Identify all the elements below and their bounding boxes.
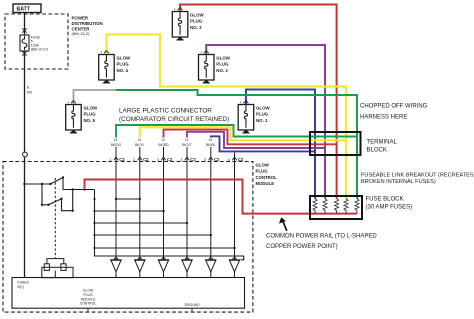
- driver transistor Q1: [110, 260, 121, 278]
- wire red glow plug 3 to fuse block: [180, 5, 337, 199]
- svg-text:GLOW: GLOW: [216, 55, 231, 60]
- fuse F5 125A: [20, 35, 29, 51]
- svg-text:BK/DG: BK/DG: [111, 143, 122, 147]
- svg-text:MODULE: MODULE: [256, 181, 275, 186]
- relay coil: [42, 259, 73, 278]
- fuse element 5: [355, 199, 359, 214]
- svg-text:FUSE BLOCK: FUSE BLOCK: [366, 197, 404, 203]
- wire red comparator pin3 to terminal block: [164, 130, 337, 145]
- stub below ground: [191, 308, 193, 311]
- svg-text:C2: C2: [143, 157, 149, 162]
- svg-text:FUSED: FUSED: [18, 281, 30, 285]
- label: FUSED B(+): [18, 281, 30, 290]
- driver transistor Q3: [158, 260, 169, 278]
- driver transistor Q4: [181, 260, 192, 278]
- svg-text:GLOW: GLOW: [256, 105, 271, 110]
- ground at glow plug 2: [203, 79, 210, 83]
- matrix row 5: [95, 247, 235, 249]
- svg-text:TERMINAL: TERMINAL: [367, 140, 398, 146]
- svg-text:C2: C2: [119, 157, 125, 162]
- node bus top: [63, 189, 95, 191]
- wire yellow comparator pin2 to terminal block: [140, 127, 346, 140]
- svg-text:CONTROL: CONTROL: [256, 175, 278, 180]
- svg-text:PLUG: PLUG: [256, 112, 269, 117]
- label: GLOW PLUG NO. 1: [256, 105, 271, 122]
- terminal block: [310, 132, 361, 155]
- label: COMMON POWER RAIL: [266, 234, 377, 250]
- svg-text:COPPER POWER POINT): COPPER POWER POINT): [266, 244, 338, 250]
- wire purple comparator pin4 to terminal block: [187, 132, 325, 148]
- svg-text:C2: C2: [167, 157, 173, 162]
- label: wire gauge 8 RD: [27, 86, 33, 95]
- driver transistor Q2: [134, 260, 145, 278]
- stub below control: [87, 308, 89, 311]
- glow plug No. 5: [66, 100, 82, 130]
- glow plug No. 2: [199, 50, 215, 80]
- power distribution center dashed box: [5, 14, 68, 69]
- svg-text:3: 3: [157, 158, 159, 162]
- bus vertical inside module: [95, 190, 244, 260]
- wire blue glow plug 1 to fuse block: [246, 90, 315, 199]
- svg-text:HARNESS HERE: HARNESS HERE: [360, 115, 407, 121]
- svg-text:POWER: POWER: [72, 15, 89, 20]
- svg-text:NO. 3: NO. 3: [190, 25, 202, 30]
- svg-text:B(+): B(+): [18, 285, 25, 289]
- svg-text:BK/RD: BK/RD: [158, 143, 169, 147]
- svg-text:GLOW: GLOW: [117, 55, 132, 60]
- wire yellow glow plug 4 to fuse block: [106, 35, 346, 199]
- svg-text:BATT: BATT: [17, 7, 31, 13]
- pin leads through connector C2 into module: [116, 147, 235, 260]
- label: GLOW PLUG NO. 3: [190, 12, 205, 29]
- svg-text:NO. 5: NO. 5: [84, 118, 96, 123]
- svg-text:GROUND: GROUND: [184, 303, 200, 307]
- fuse element 2: [323, 199, 327, 214]
- label: GLOW PLUG NO. 5: [84, 105, 99, 122]
- splice X mark below fuse: [22, 51, 26, 55]
- svg-text:1: 1: [110, 158, 112, 162]
- svg-text:PLUG: PLUG: [84, 112, 97, 117]
- matrix row 3: [95, 222, 188, 224]
- ground at glow plug 3: [176, 36, 183, 40]
- fuse element 4: [344, 199, 348, 214]
- label: GLOW PLUG MODULE CONTROL: [80, 289, 97, 306]
- glow plug No. 1: [238, 100, 254, 130]
- svg-text:PLUG: PLUG: [256, 169, 269, 174]
- matrix row 2: [95, 210, 164, 212]
- connector C2 pin chevrons and labels: [110, 157, 244, 162]
- svg-text:5: 5: [204, 158, 206, 162]
- ground at glow plug 1: [242, 129, 249, 133]
- svg-text:2: 2: [133, 158, 135, 162]
- relay actuation dashed line: [54, 178, 56, 258]
- svg-text:RD: RD: [27, 91, 33, 95]
- arrow to common power rail: [279, 217, 287, 231]
- svg-text:GLOW: GLOW: [256, 162, 270, 167]
- label: LARGE PLASTIC CONNECTOR: [119, 108, 229, 123]
- svg-text:BK/VT: BK/VT: [182, 143, 192, 147]
- svg-text:GLOW: GLOW: [83, 289, 94, 293]
- wire purple glow plug 2 to fuse block: [206, 45, 325, 199]
- svg-text:NO. 4: NO. 4: [117, 68, 129, 73]
- svg-text:(COMPARATOR CIRCUIT RETAINED): (COMPARATOR CIRCUIT RETAINED): [119, 116, 229, 123]
- fuse element 1: [313, 199, 317, 214]
- svg-text:14: 14: [185, 138, 189, 142]
- connector circle at module entry: [23, 152, 28, 157]
- svg-text:GLOW: GLOW: [190, 12, 205, 17]
- ground at glow plug 4: [103, 79, 110, 83]
- driver transistor Q5: [205, 260, 216, 278]
- relay contact blade 2: [41, 184, 43, 205]
- internal circuit box: [12, 278, 245, 309]
- wire blue comparator pin5 to terminal block: [211, 136, 315, 151]
- svg-text:PLUG: PLUG: [117, 62, 130, 67]
- svg-text:BLOCK: BLOCK: [367, 148, 387, 154]
- svg-text:4: 4: [181, 158, 183, 162]
- svg-text:BK/BL: BK/BL: [206, 143, 216, 147]
- wire feed inside module to internal box: [24, 157, 26, 278]
- svg-text:CHOPPED OFF WIRING: CHOPPED OFF WIRING: [360, 104, 428, 110]
- svg-text:BK/YL: BK/YL: [135, 143, 145, 147]
- battery B1 box BATT: [13, 4, 41, 13]
- svg-text:14: 14: [137, 138, 141, 142]
- label: FUSE 5 125A: [31, 36, 48, 52]
- ground at glow plug 5: [70, 129, 77, 133]
- svg-text:C2: C2: [238, 157, 244, 162]
- wire labels 14 BK/xx: [111, 138, 216, 147]
- svg-text:DISTRIBUTION: DISTRIBUTION: [72, 21, 103, 26]
- svg-text:NO. 2: NO. 2: [216, 68, 228, 73]
- svg-text:14: 14: [114, 138, 118, 142]
- relay branch from feed: [25, 183, 51, 185]
- svg-text:COMMON POWER RAIL (TO L-SHAPED: COMMON POWER RAIL (TO L-SHAPED: [266, 234, 377, 240]
- wire green to fuse block: [116, 90, 357, 199]
- matrix row 4: [95, 234, 212, 236]
- label: CHOPPED OFF WIRING HARNESS HERE: [360, 104, 428, 121]
- fuse element 3: [335, 199, 339, 214]
- fuse block: [310, 196, 362, 219]
- svg-text:NO. 1: NO. 1: [256, 118, 268, 123]
- svg-text:14: 14: [208, 138, 212, 142]
- relay contact blade 1: [51, 178, 64, 185]
- svg-text:C2: C2: [190, 157, 196, 162]
- svg-text:6: 6: [228, 158, 230, 162]
- wire from BATT to fuse: [24, 13, 26, 36]
- svg-text:PLUG: PLUG: [190, 19, 203, 24]
- glow plug No. 3: [172, 7, 188, 37]
- wire grey from glow plug 5: [73, 90, 116, 104]
- svg-text:(8W-10-2): (8W-10-2): [72, 31, 91, 36]
- svg-text:(30 AMP FUSES): (30 AMP FUSES): [366, 205, 413, 211]
- label: GLOW PLUG NO. 2: [216, 55, 231, 72]
- svg-text:PLUG: PLUG: [83, 293, 93, 297]
- svg-text:PLUG: PLUG: [216, 62, 229, 67]
- svg-text:LARGE PLASTIC CONNECTOR: LARGE PLASTIC CONNECTOR: [119, 108, 212, 115]
- glow plug control module dashed box: [3, 162, 253, 313]
- svg-text:14: 14: [161, 138, 165, 142]
- svg-text:CONTROL: CONTROL: [80, 302, 97, 306]
- svg-text:BROKEN INTERNAL FUSES): BROKEN INTERNAL FUSES): [361, 179, 436, 185]
- wire red common power rail from module to fuse block: [85, 180, 358, 214]
- driver transistor Q6: [229, 260, 240, 278]
- matrix row 1: [116, 198, 140, 200]
- splice X mark above fuse: [22, 28, 26, 32]
- label: GLOW PLUG NO. 4: [117, 55, 132, 72]
- svg-text:FUSEABLE LINK BREAKOUT (RECREA: FUSEABLE LINK BREAKOUT (RECREATES: [361, 172, 474, 178]
- label: FUSE BLOCK 30 AMP FUSES: [366, 197, 413, 211]
- svg-text:8: 8: [27, 86, 29, 90]
- svg-text:(8W-10-17): (8W-10-17): [31, 48, 48, 52]
- transistor input chevrons: [114, 257, 237, 261]
- svg-text:GLOW: GLOW: [84, 105, 99, 110]
- svg-text:C2: C2: [214, 157, 220, 162]
- glow plug No. 4: [99, 50, 115, 80]
- label: POWER DISTRIBUTION CENTER: [72, 15, 103, 36]
- wire green comparator pin1 to terminal block: [116, 125, 357, 138]
- wire 8 RD battery feed down to module: [24, 51, 26, 152]
- svg-text:MODULE: MODULE: [81, 297, 96, 301]
- label: TERMINAL BLOCK: [367, 140, 398, 154]
- label: FUSEABLE LINK BREAKOUT: [361, 172, 474, 185]
- label: GLOW PLUG CONTROL MODULE: [256, 162, 278, 186]
